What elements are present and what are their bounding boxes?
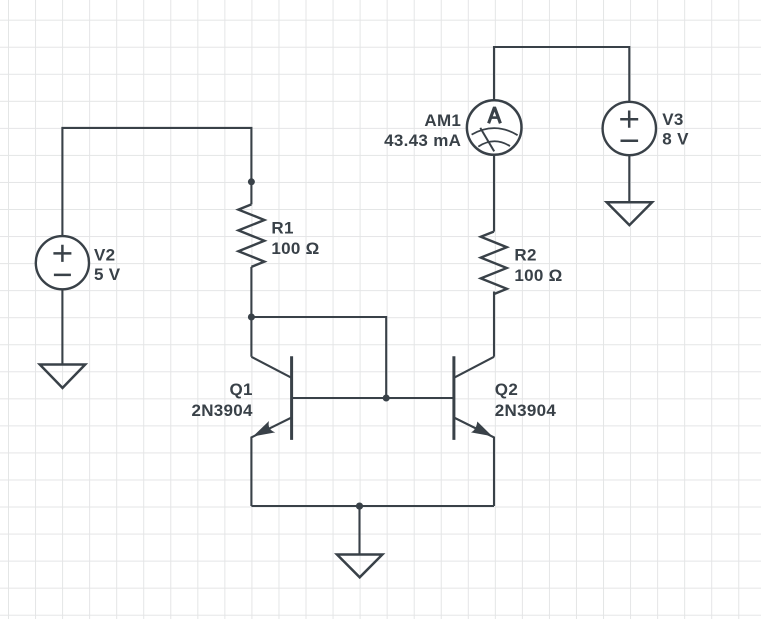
svg-text:2N3904: 2N3904 xyxy=(191,401,253,420)
wire R2 bottom to Q2 collector xyxy=(493,292,495,357)
ground bottom xyxy=(337,555,382,578)
ammeter letter A xyxy=(489,107,501,123)
wire base Q1 to Q2 xyxy=(292,397,454,399)
transistor Q1 emitter xyxy=(251,418,291,507)
transistor Q2 emitter arrow xyxy=(471,422,492,437)
wire R1 bottom node to base node xyxy=(251,317,386,398)
svg-text:8 V: 8 V xyxy=(662,130,689,149)
svg-text:Q2: Q2 xyxy=(495,380,518,399)
wire bottom rail xyxy=(251,505,494,507)
svg-text:V2: V2 xyxy=(94,246,115,265)
transistor Q1 collector diagonal xyxy=(251,357,291,378)
svg-text:R2: R2 xyxy=(514,245,536,264)
svg-text:100 Ω: 100 Ω xyxy=(514,266,562,285)
wire V2 top to R1 top xyxy=(62,128,251,236)
resistor R1 xyxy=(238,204,264,267)
svg-text:43.43 mA: 43.43 mA xyxy=(384,131,461,150)
node dot R1 bottom xyxy=(248,314,255,321)
voltage source V2 xyxy=(36,236,89,289)
wire V3 bottom to ground xyxy=(628,155,630,202)
wire ammeter bottom to R2 top xyxy=(493,155,495,232)
svg-text:R1: R1 xyxy=(271,219,293,238)
svg-text:Q1: Q1 xyxy=(230,380,253,399)
node dot R1 top xyxy=(248,178,255,185)
transistor Q2 collector diagonal xyxy=(454,357,494,378)
node dot base xyxy=(383,395,390,402)
svg-text:5 V: 5 V xyxy=(94,265,121,284)
ammeter AM1 xyxy=(467,100,522,155)
voltage source V3 xyxy=(603,102,656,155)
resistor R2 xyxy=(481,232,507,295)
node dot bottom rail xyxy=(356,503,363,510)
svg-text:100 Ω: 100 Ω xyxy=(271,239,319,258)
wire R1 bottom to Q1 collector xyxy=(250,267,252,357)
wire ammeter top / top rail / V3 top xyxy=(494,47,629,102)
transistor Q2 emitter xyxy=(454,418,494,507)
svg-text:AM1: AM1 xyxy=(424,111,461,130)
ground V2 xyxy=(40,365,85,388)
wire V2 bottom to ground xyxy=(61,289,63,364)
transistor Q1 base bar xyxy=(290,356,293,440)
transistor Q2 base bar xyxy=(452,356,455,440)
svg-text:2N3904: 2N3904 xyxy=(495,401,557,420)
transistor Q1 emitter arrow xyxy=(253,421,275,436)
wire ground stem xyxy=(358,506,360,555)
svg-text:V3: V3 xyxy=(662,110,683,129)
ground V3 xyxy=(607,202,652,225)
